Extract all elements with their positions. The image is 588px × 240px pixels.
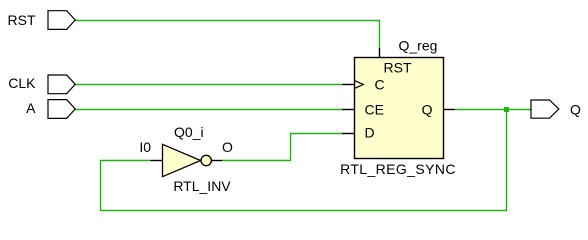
svg-text:Q0_i: Q0_i xyxy=(174,124,204,140)
svg-text:RST: RST xyxy=(8,12,36,28)
svg-text:RST: RST xyxy=(384,60,412,76)
svg-text:Q_reg: Q_reg xyxy=(399,38,438,54)
svg-text:C: C xyxy=(375,77,385,93)
svg-text:CLK: CLK xyxy=(8,75,36,91)
svg-text:O: O xyxy=(222,139,233,155)
svg-text:I0: I0 xyxy=(139,139,151,155)
svg-text:CE: CE xyxy=(365,102,384,118)
svg-text:Q: Q xyxy=(570,102,581,118)
svg-text:A: A xyxy=(26,100,36,116)
svg-text:RTL_REG_SYNC: RTL_REG_SYNC xyxy=(340,161,456,177)
svg-text:Q: Q xyxy=(422,102,433,118)
svg-text:D: D xyxy=(365,125,375,141)
svg-text:RTL_INV: RTL_INV xyxy=(173,178,231,194)
